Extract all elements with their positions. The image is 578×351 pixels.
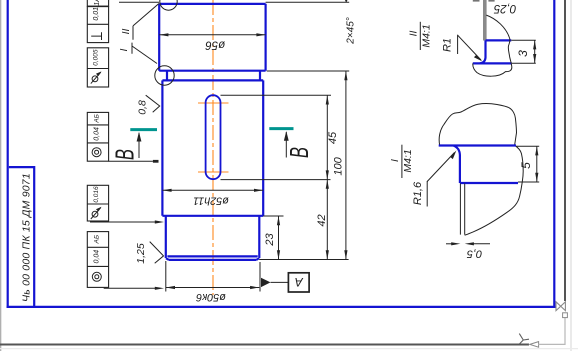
- svg-text:42: 42: [316, 214, 328, 226]
- svg-text:0,016: 0,016: [93, 186, 100, 203]
- svg-text:45: 45: [327, 131, 339, 144]
- centerline: [212, 0, 214, 295]
- title block box: [9, 167, 34, 307]
- svg-text:ø52h11: ø52h11: [193, 195, 229, 207]
- frame box5 runout: [87, 185, 108, 221]
- extension line y71 right: [267, 70, 350, 72]
- frame box5 leader arrow: [90, 220, 164, 223]
- svg-text:0,01: 0,01: [93, 7, 100, 21]
- window left edge line: [0, 0, 2, 351]
- svg-text:II: II: [408, 31, 420, 37]
- extension line top y2.2 left: [119, 1, 159, 3]
- section arrow left: [109, 132, 141, 160]
- svg-text:0,25: 0,25: [493, 2, 516, 14]
- keyway slot: [206, 95, 221, 179]
- detail I dimension 5: [516, 146, 539, 182]
- svg-text:II: II: [120, 29, 132, 35]
- label II with leader: [120, 4, 159, 40]
- dimension chain 45 / 42: [316, 95, 339, 259]
- svg-text:АБ: АБ: [93, 114, 100, 124]
- shaft section ø56: [159, 4, 265, 71]
- svg-text:0,005: 0,005: [93, 49, 100, 66]
- y mark near corner: [519, 334, 529, 344]
- dimension 23: [264, 216, 280, 260]
- svg-text:I: I: [389, 159, 401, 162]
- dimension ø50k6: [166, 261, 260, 303]
- extension line bottom long: [259, 259, 348, 261]
- svg-text:Чь 00 000 ПК 15 ДМ 9071: Чь 00 000 ПК 15 ДМ 9071: [21, 173, 33, 302]
- detail II dimension 3: [511, 40, 536, 63]
- extension line y216 for 23: [263, 215, 283, 217]
- keyway arc center mark bottom: [198, 171, 229, 173]
- view arrow A: [261, 273, 309, 292]
- detail II top dimension line remnants: [473, 0, 495, 2]
- frame box6 concentricity: [87, 232, 108, 288]
- svg-text:100: 100: [333, 156, 345, 175]
- svg-text:0,04: 0,04: [93, 250, 100, 264]
- cutting plane stroke left: [130, 128, 157, 131]
- dimension chamfer 2x45: [345, 0, 357, 45]
- svg-text:ø56: ø56: [205, 39, 225, 51]
- blue frame bottom border: [7, 306, 556, 308]
- frame box4 concentricity: [87, 112, 108, 161]
- detail II profile blue: [473, 40, 512, 63]
- svg-text:М4:1: М4:1: [402, 149, 414, 172]
- area outside sheet right: [570, 0, 572, 351]
- svg-text:М4:1: М4:1: [420, 24, 432, 47]
- detail circle II at top: [160, 0, 177, 10]
- corner light connector lines: [539, 318, 565, 345]
- keyway arc center mark top: [198, 102, 229, 104]
- extension line y179.5 slot bottom: [221, 179, 331, 181]
- shaft section ø52h11: [162, 80, 263, 215]
- detail I dimension 0,5: [446, 242, 490, 259]
- roughness 0,8: [137, 95, 160, 115]
- svg-text:0,04: 0,04: [93, 127, 100, 141]
- sheet bottom edge gray: [0, 344, 529, 346]
- section arrow right: [284, 131, 314, 158]
- svg-text:0,8: 0,8: [137, 100, 149, 115]
- svg-text:В: В: [284, 147, 314, 158]
- frame box4 leader with datum tip: [109, 160, 153, 162]
- frame box2 perpendicularity: [87, 7, 108, 43]
- svg-text:3: 3: [516, 50, 530, 57]
- dimension ø52h11: [162, 189, 263, 207]
- svg-text:23: 23: [264, 233, 276, 247]
- frame box1 partial: [87, 0, 108, 6]
- frame box3 runout: [87, 48, 108, 87]
- dimension 100: [333, 71, 348, 260]
- detail I break curve blob: [439, 104, 516, 146]
- anchor marker under bowtie: [563, 313, 568, 318]
- svg-text:2×45°: 2×45°: [345, 17, 356, 45]
- detail II gray cylinder line: [483, 0, 487, 41]
- extension line y95.3 slot top: [221, 94, 332, 96]
- detail II label II M4:1: [408, 22, 433, 50]
- svg-text:R1: R1: [442, 38, 454, 52]
- relief neck: [162, 71, 263, 81]
- svg-text:В: В: [109, 149, 139, 160]
- detail I groove side extension double lines: [460, 184, 464, 235]
- extension line top y2.2 right: [266, 1, 350, 3]
- label I with leader: [118, 43, 157, 64]
- detail I radius R1,6 with leader: [412, 150, 456, 206]
- svg-text:A: A: [295, 275, 304, 289]
- detail I blue surfaces: [439, 146, 518, 184]
- cutting plane stroke right: [269, 127, 293, 130]
- svg-text:1А: 1А: [94, 0, 101, 6]
- detail circle I: [155, 66, 174, 85]
- blue frame left border: [7, 0, 9, 308]
- svg-text:1,25: 1,25: [135, 243, 147, 264]
- corner origin open arrow: [530, 342, 539, 348]
- svg-text:5: 5: [519, 162, 533, 169]
- detail I label I M4:1: [389, 145, 414, 178]
- roughness 1,25: [135, 242, 164, 264]
- svg-text:0,5: 0,5: [466, 248, 482, 260]
- bowtie corner handle: [556, 302, 565, 311]
- sheet right edge gray: [564, 0, 566, 301]
- frame box6 leader arrow: [104, 287, 164, 290]
- svg-text:R1,6: R1,6: [412, 181, 424, 205]
- blue frame right border: [553, 0, 555, 308]
- svg-text:ø50к6: ø50к6: [196, 291, 226, 303]
- detail II break curve: [473, 15, 512, 76]
- shaft section ø50k6 with chamfer: [166, 216, 259, 260]
- detail II radius R1 with leader: [442, 35, 483, 62]
- dimension ø56: [159, 33, 265, 50]
- svg-text:АБ: АБ: [93, 235, 100, 245]
- svg-text:I: I: [118, 48, 130, 51]
